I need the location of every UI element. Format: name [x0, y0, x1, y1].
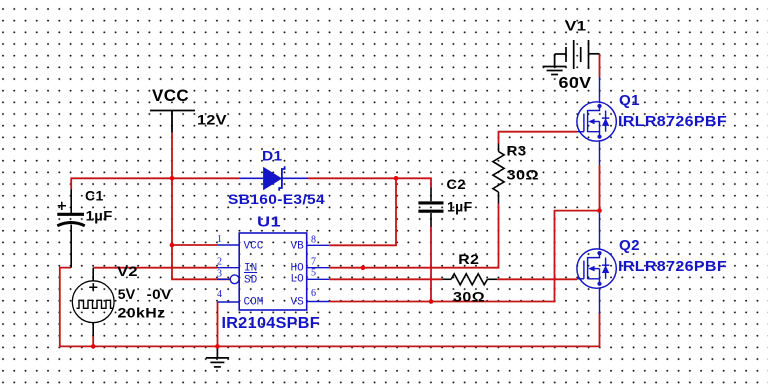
U1 pin stub 6 — [307, 301, 330, 303]
U1 pin stub 8 — [307, 244, 330, 246]
svg-text:8: 8 — [311, 235, 316, 246]
junction: V2 minus at ground rail — [91, 344, 96, 349]
svg-text:SD: SD — [244, 274, 258, 286]
svg-text:5V: 5V — [118, 286, 136, 302]
capacitor C2 — [418, 188, 443, 228]
U1 pin stub 7 — [307, 267, 330, 269]
svg-text:1: 1 — [217, 234, 222, 245]
wire: top rail left (C1 top to diode anode) — [71, 178, 240, 189]
diode D1 (Schottky) — [240, 166, 308, 191]
junction: HO net — [361, 265, 366, 270]
svg-text:12V: 12V — [197, 112, 227, 128]
svg-text:5: 5 — [311, 268, 316, 279]
svg-text:-0V: -0V — [147, 286, 172, 302]
U1 pin stub 5 — [307, 278, 330, 280]
resistor R3 (vertical) — [493, 144, 504, 204]
svg-text:30Ω: 30Ω — [507, 166, 540, 182]
source V1 (battery) — [555, 40, 600, 69]
U1 pin stub 1 — [217, 244, 239, 246]
svg-text:SB160-E3/54: SB160-E3/54 — [228, 191, 325, 207]
svg-text:IR2104SPBF: IR2104SPBF — [222, 315, 321, 332]
wire: pin 4 COM down to ground rail — [217, 302, 219, 346]
svg-text:C1: C1 — [85, 188, 104, 204]
svg-text:D1: D1 — [262, 148, 283, 164]
svg-text:2: 2 — [217, 257, 222, 268]
svg-text:V2: V2 — [117, 263, 138, 279]
wire: branch to pin 1 — [172, 244, 217, 246]
wire: C2 bottom down to VS net — [430, 227, 432, 302]
svg-text:C2: C2 — [446, 176, 466, 192]
svg-text:4: 4 — [217, 289, 222, 300]
U1 pin stub 3 with inversion bubble — [217, 275, 239, 284]
U1 pin name SD (active low overline) — [244, 273, 258, 287]
svg-text:Q1: Q1 — [619, 93, 640, 109]
svg-text:20kHz: 20kHz — [118, 305, 166, 321]
wire: left rail (C1 bottom to ground rail) — [60, 268, 71, 347]
ground at COM rail — [206, 346, 229, 367]
wire: Q1 source down to VS junction — [599, 165, 601, 211]
junction: Q1 source / Q2 drain — [597, 208, 602, 213]
svg-text:R2: R2 — [458, 251, 479, 267]
svg-text:1µF: 1µF — [447, 198, 473, 214]
wire: LO net (pin 5 to R2 left) — [329, 278, 442, 280]
svg-text:VCC: VCC — [244, 241, 264, 253]
wire: VCC bus down to SD (pin3) — [172, 178, 230, 279]
svg-text:COM: COM — [244, 297, 264, 309]
svg-text:R3: R3 — [507, 143, 527, 159]
wire: R3 top to Q1 gate — [499, 132, 578, 144]
transistor Q2 (N-MOSFET) — [577, 213, 616, 314]
svg-text:Q2: Q2 — [619, 238, 640, 254]
wire: Q2 source down to ground rail — [599, 314, 601, 347]
ground at V1 minus — [543, 54, 567, 75]
junction: VCC bus at pin1 — [170, 243, 175, 248]
resistor R2 (horizontal) — [443, 274, 497, 285]
svg-text:VB: VB — [291, 241, 305, 253]
capacitor C1 — [57, 189, 85, 267]
source V2 (pulse source) — [72, 268, 114, 347]
U1 pin stub 4 — [218, 301, 240, 303]
svg-text:IRLR8726PBF: IRLR8726PBF — [618, 114, 727, 130]
junction: VCC to top rail — [170, 176, 175, 181]
transistor Q1 (N-MOSFET) — [577, 77, 616, 165]
junction: top rail to pin8 branch — [394, 176, 399, 181]
junction: VS net at C2 bottom — [429, 299, 434, 304]
wire: top rail right (diode cathode to C2 top) — [308, 178, 432, 187]
svg-text:7: 7 — [311, 257, 316, 268]
wire: top rail to pin 8 VB — [329, 178, 396, 245]
wire: VCC stem red segment — [171, 133, 173, 179]
svg-text:30Ω: 30Ω — [453, 289, 485, 305]
U1 pin stub 2 — [217, 267, 239, 269]
wire: R2 right to Q2 gate — [497, 278, 577, 280]
wire: HO net (pin 7 to R3 bottom) — [329, 204, 498, 268]
wire: V1 plus down to Q1 drain — [599, 54, 601, 77]
svg-text:3: 3 — [217, 269, 222, 280]
svg-text:VS: VS — [291, 297, 305, 309]
power symbol VCC — [150, 111, 195, 133]
junction: COM at ground rail — [215, 344, 220, 349]
svg-text:1µF: 1µF — [86, 207, 113, 223]
svg-text:6: 6 — [311, 288, 316, 299]
svg-text:V1: V1 — [565, 18, 587, 34]
wire: VS net (pin 6 to Q1 source / Q2 drain junction) — [329, 211, 599, 302]
wire: bottom ground rail — [60, 345, 600, 347]
wire: V2 plus to pin 2 — [93, 267, 217, 269]
svg-text:LO: LO — [291, 273, 305, 285]
op-amp driver U1 box — [239, 233, 307, 310]
svg-text:U1: U1 — [257, 213, 281, 230]
svg-text:VCC: VCC — [152, 86, 189, 105]
svg-text:IRLR8726PBF: IRLR8726PBF — [618, 259, 727, 275]
svg-text:60V: 60V — [559, 75, 592, 92]
